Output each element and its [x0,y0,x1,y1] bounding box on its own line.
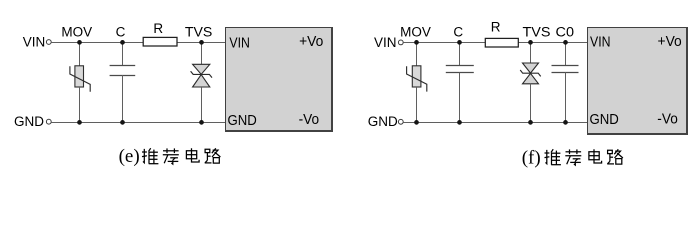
svg-text:R: R [491,19,501,34]
svg-text:C: C [453,25,463,40]
svg-text:(e): (e) [119,146,140,167]
wire top rail to TVS (right) [530,42,532,63]
junction dot MOV bottom (left) [77,120,82,125]
junction dot C top (right) [457,40,462,45]
svg-text:-Vo: -Vo [657,111,678,128]
svg-text:VIN: VIN [590,34,611,51]
node VIN terminal (right) [374,35,403,50]
junction dot MOV top (right) [414,40,419,45]
svg-text:MOV: MOV [400,25,431,40]
wire TVS to GND rail (right) [530,84,532,123]
svg-text:GND: GND [590,111,619,128]
node VIN terminal (left) [23,35,51,50]
wire top rail to TVS (left) [201,42,203,64]
wire top rail to capacitor C (right) [459,42,461,66]
wire TVS to GND rail (left) [201,87,203,123]
wire resistor R to module (right top rail) [518,42,588,44]
wire capacitor C0 to GND rail (right) [565,72,567,122]
junction dot C bottom (right) [457,120,462,125]
svg-text:VIN: VIN [374,35,397,50]
svg-text:C: C [116,25,126,40]
junction dot MOV bottom (right) [414,120,419,125]
svg-text:+Vo: +Vo [299,33,323,50]
svg-text:R: R [153,21,163,36]
junction dot C top (left) [120,40,125,45]
wire top rail to capacitor C (left) [122,42,124,66]
svg-text:GND: GND [228,112,257,129]
svg-text:VIN: VIN [23,35,46,50]
svg-text:-Vo: -Vo [299,111,320,128]
svg-text:GND: GND [368,114,398,129]
wire GND rail (right) [403,122,587,124]
node GND terminal (right) [368,114,403,129]
caption (e) tuijian dianlu [119,146,221,167]
varistor MOV (right) [407,66,427,92]
node GND terminal (left) [14,114,51,129]
junction dot TVS bottom (left) [199,120,204,125]
wire VIN terminal to resistor R (left top rail) [51,42,143,44]
wire varistor MOV to GND rail (right) [416,87,418,123]
wire top rail to capacitor C0 (right) [565,42,567,66]
wire capacitor C to GND rail (right) [459,73,461,123]
tvs diode TVS bidirectional (left) [191,64,212,87]
svg-text:TVS: TVS [185,24,213,39]
svg-text:+Vo: +Vo [658,33,682,50]
resistor R (right) [485,38,518,47]
capacitor C (left) [110,66,136,76]
varistor MOV (left) [70,66,90,92]
resistor R (left) [143,37,177,46]
wire resistor R to module (left top rail) [177,42,227,44]
junction dot TVS top (left) [199,40,204,45]
svg-text:GND: GND [14,114,44,129]
wire varistor MOV to GND rail (left) [79,87,81,123]
wire GND rail (left) [51,122,226,124]
junction dot TVS top (right) [528,40,533,45]
wire top rail to varistor MOV (right) [416,42,418,66]
module U1 DC-DC converter box (left) [225,27,333,132]
svg-text:MOV: MOV [61,25,92,40]
caption (f) tuijian dianlu [522,148,623,169]
capacitor C (right) [446,66,474,73]
capacitor C0 (right) [552,66,579,73]
junction dot C bottom (left) [120,120,125,125]
junction dot C0 top (right) [563,40,568,45]
svg-text:(f): (f) [522,148,541,169]
tvs diode TVS bidirectional (right) [520,63,541,84]
junction dot MOV top (left) [77,40,82,45]
module U2 DC-DC converter box (right) [587,27,688,135]
svg-text:TVS: TVS [523,24,551,39]
svg-text:VIN: VIN [229,34,250,51]
wire capacitor C to GND rail (left) [122,75,124,123]
wire top rail to varistor MOV (left) [79,42,81,66]
junction dot C0 bottom (right) [563,120,568,125]
svg-text:C0: C0 [556,24,575,39]
wire VIN terminal to resistor R (right top rail) [403,42,485,44]
junction dot TVS bottom (right) [528,120,533,125]
